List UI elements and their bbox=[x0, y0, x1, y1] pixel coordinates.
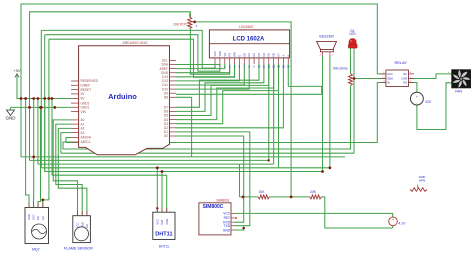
svg-text:DHT11: DHT11 bbox=[159, 245, 169, 249]
svg-text:DAT: DAT bbox=[160, 219, 164, 224]
svg-text:VO: VO bbox=[223, 53, 227, 57]
svg-text:GND: GND bbox=[6, 116, 17, 121]
svg-text:VIN: VIN bbox=[81, 110, 87, 114]
svg-text:VSS: VSS bbox=[213, 51, 217, 56]
svg-text:GND: GND bbox=[165, 219, 169, 225]
svg-text:DO: DO bbox=[36, 216, 40, 220]
svg-text:12V: 12V bbox=[425, 100, 432, 104]
svg-text:A3: A3 bbox=[81, 131, 85, 135]
svg-text:NPN: NPN bbox=[419, 179, 425, 183]
svg-text:RW: RW bbox=[233, 52, 237, 57]
svg-text:LCD1602: LCD1602 bbox=[239, 25, 253, 29]
svg-text:ARDUINO UNO: ARDUINO UNO bbox=[123, 41, 148, 45]
svg-text:FAN: FAN bbox=[455, 89, 462, 93]
svg-text:BUZZER: BUZZER bbox=[319, 35, 334, 39]
svg-text:LED: LED bbox=[349, 32, 356, 36]
svg-text:VDD: VDD bbox=[218, 51, 222, 57]
svg-text:D7: D7 bbox=[277, 53, 281, 57]
svg-text:D0: D0 bbox=[242, 53, 246, 57]
svg-text:VCC: VCC bbox=[32, 214, 36, 220]
svg-text:+5V: +5V bbox=[13, 68, 21, 73]
svg-text:D5: D5 bbox=[267, 53, 271, 57]
svg-text:COM: COM bbox=[401, 77, 408, 81]
svg-text:RELAY: RELAY bbox=[395, 60, 408, 65]
svg-text:VCC: VCC bbox=[223, 212, 230, 216]
svg-text:LCD 1602A: LCD 1602A bbox=[233, 37, 265, 43]
svg-text:D3: D3 bbox=[257, 53, 261, 57]
svg-text:D0: D0 bbox=[164, 134, 168, 138]
svg-text:SIM800C: SIM800C bbox=[203, 204, 224, 210]
svg-text:10K POT: 10K POT bbox=[173, 23, 187, 27]
svg-text:D6: D6 bbox=[272, 53, 276, 57]
svg-text:+: + bbox=[416, 95, 418, 99]
svg-text:GND: GND bbox=[387, 77, 393, 81]
svg-text:FLAME SENSOR: FLAME SENSOR bbox=[64, 247, 93, 251]
svg-text:900 ohms: 900 ohms bbox=[333, 67, 348, 71]
svg-text:4.1V: 4.1V bbox=[398, 222, 406, 226]
svg-text:D1: D1 bbox=[247, 53, 251, 57]
svg-text:D8: D8 bbox=[164, 96, 168, 100]
svg-text:+: + bbox=[392, 218, 394, 222]
svg-text:A5SCL: A5SCL bbox=[81, 140, 91, 144]
svg-text:D4: D4 bbox=[262, 53, 266, 57]
svg-text:IN: IN bbox=[387, 81, 390, 85]
svg-text:A: A bbox=[281, 55, 285, 57]
svg-text:10K: 10K bbox=[259, 190, 266, 194]
svg-text:K: K bbox=[286, 55, 290, 57]
svg-text:D2: D2 bbox=[252, 53, 256, 57]
svg-text:RS: RS bbox=[228, 53, 232, 57]
svg-text:GND: GND bbox=[223, 228, 231, 232]
svg-text:E: E bbox=[237, 55, 241, 57]
svg-text:AO: AO bbox=[41, 216, 45, 220]
svg-text:GND: GND bbox=[27, 214, 31, 220]
svg-text:DHT11: DHT11 bbox=[155, 231, 172, 237]
svg-text:Arduino: Arduino bbox=[108, 92, 137, 101]
svg-text:MQ2: MQ2 bbox=[32, 248, 39, 252]
svg-text:SIM800L: SIM800L bbox=[216, 198, 230, 202]
svg-text:VCC: VCC bbox=[387, 72, 393, 76]
svg-text:NO: NO bbox=[403, 81, 407, 85]
svg-text:-: - bbox=[448, 79, 449, 83]
svg-text:NC: NC bbox=[403, 72, 407, 76]
svg-text:VCC: VCC bbox=[155, 219, 159, 225]
svg-text:AO: AO bbox=[85, 224, 89, 228]
svg-text:20K: 20K bbox=[310, 190, 317, 194]
svg-text:A4SDA: A4SDA bbox=[81, 136, 92, 140]
